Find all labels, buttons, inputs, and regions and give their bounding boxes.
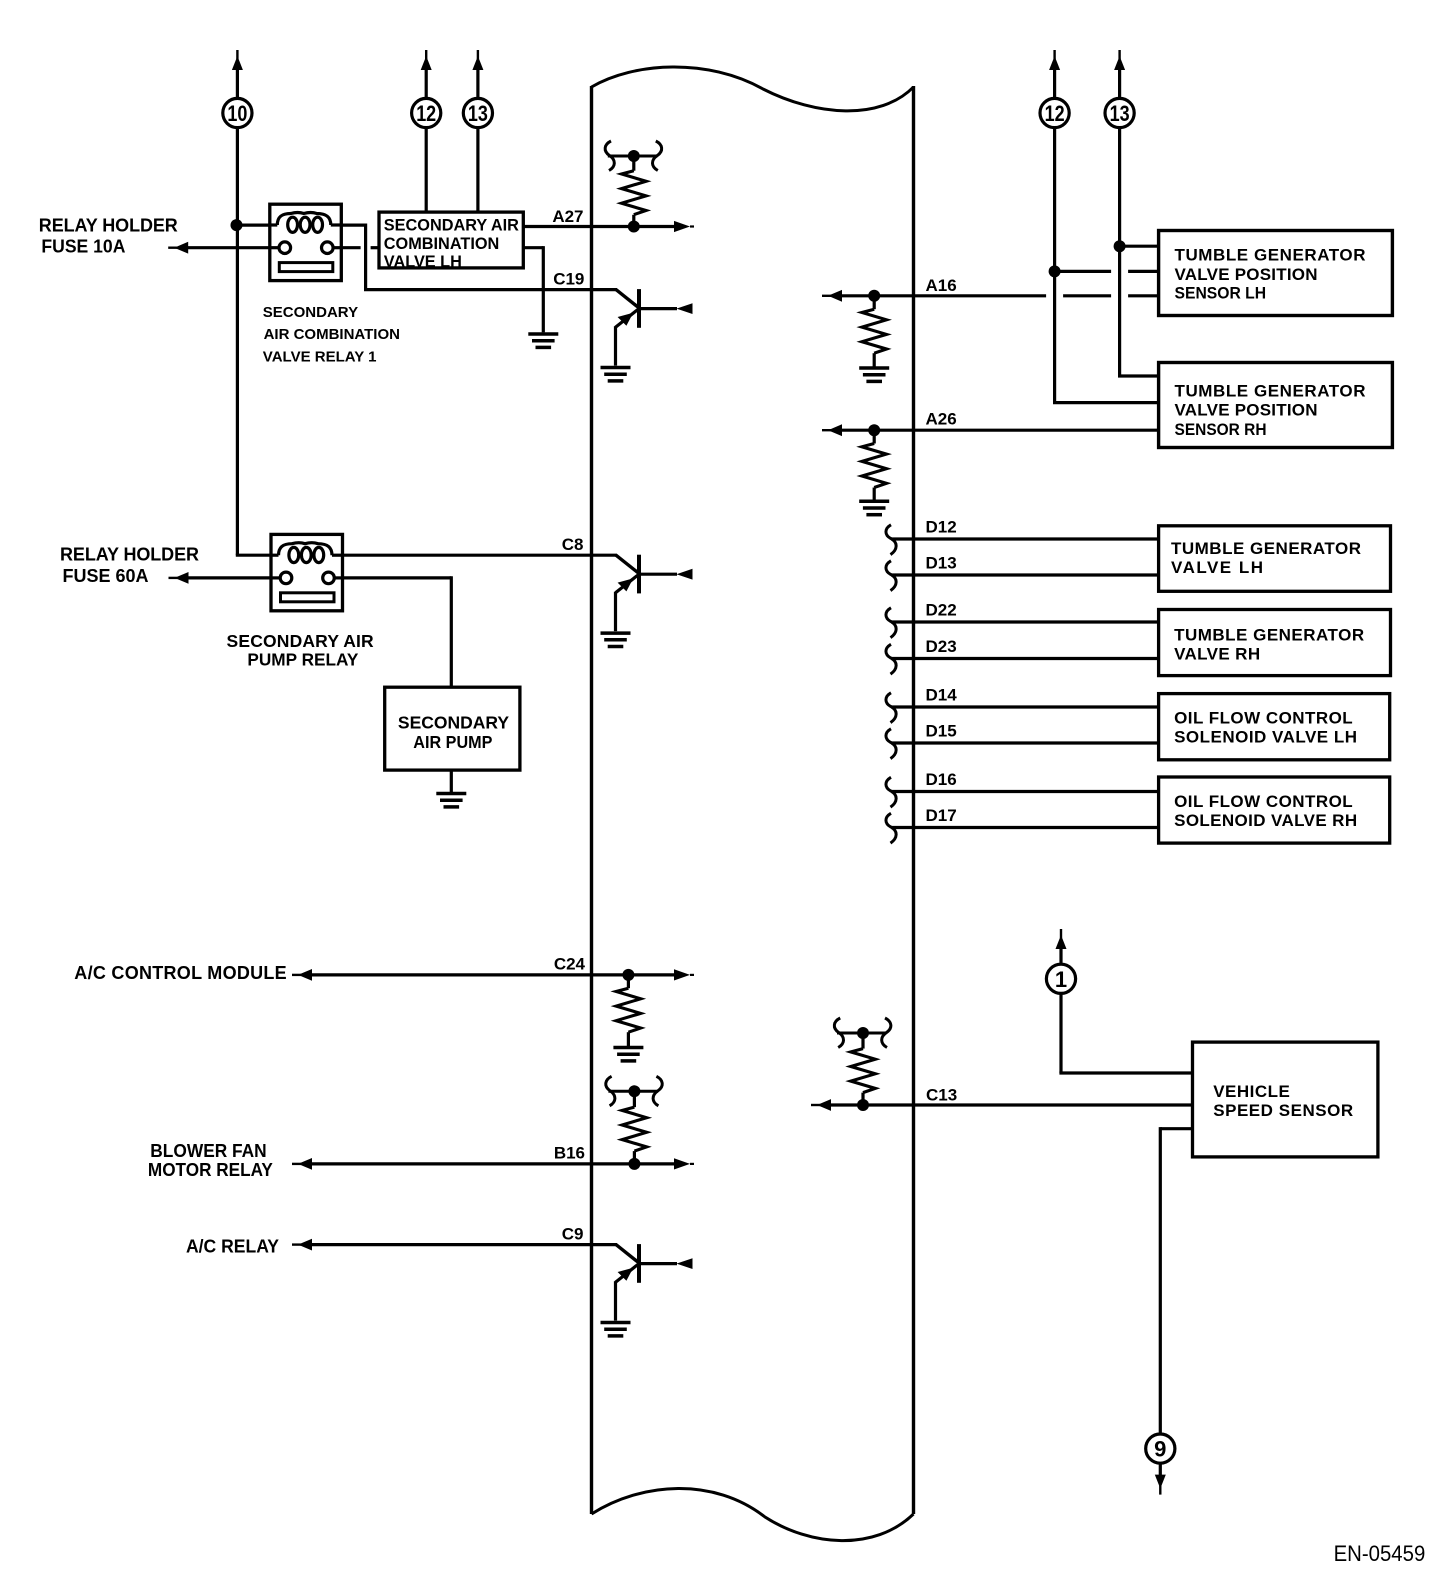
wire: connector 13 branch to sensor LH <box>1120 245 1159 248</box>
node: sensor LH supply from 13 <box>1114 240 1126 252</box>
wire: valve LH ground lead <box>523 246 543 332</box>
label D15 <box>926 722 957 741</box>
label C24 <box>554 955 586 974</box>
box: vehicle speed sensor <box>1193 1042 1378 1157</box>
label EN-05459 <box>1334 1541 1426 1566</box>
wire: supply rail from connector 10 down to relay 2 corner <box>236 69 271 556</box>
transistor: C8 driver <box>616 555 693 632</box>
shielded-wire curl symbol at C13 <box>834 1018 891 1048</box>
svg-text:SECONDARY: SECONDARY <box>398 712 509 732</box>
ground: A26 resistor <box>859 501 889 514</box>
wire C9: A/C relay line <box>292 1239 617 1251</box>
resistor: C13 pull <box>851 1035 876 1102</box>
svg-text:AIR COMBINATION: AIR COMBINATION <box>264 326 400 343</box>
svg-text:B16: B16 <box>554 1144 585 1163</box>
wire: connector 12 branch to sensor LH (hop over 13) <box>1055 270 1159 273</box>
connector circle 13 (left) <box>463 98 492 127</box>
wire C13: vehicle speed sensor signal <box>811 1099 1193 1111</box>
wire: connector 12 down to sensor RH <box>1053 128 1159 403</box>
node: A16 junction <box>868 290 880 302</box>
label D23 <box>926 637 957 656</box>
arrow up to connector 13 lead <box>472 50 483 98</box>
svg-text:RELAY HOLDER: RELAY HOLDER <box>60 545 199 565</box>
wire D23 with continuation squiggle <box>886 644 1159 674</box>
svg-text:A16: A16 <box>926 276 957 295</box>
node: sensor LH supply from 12 <box>1049 265 1061 277</box>
label D22 <box>926 601 957 620</box>
svg-text:C9: C9 <box>562 1224 584 1243</box>
box: tumble generator valve position sensor LH <box>1159 231 1393 316</box>
svg-text:VALVE RELAY 1: VALVE RELAY 1 <box>263 349 377 366</box>
svg-text:12: 12 <box>416 101 436 126</box>
svg-text:RELAY HOLDER: RELAY HOLDER <box>39 215 178 235</box>
svg-text:SPEED SENSOR: SPEED SENSOR <box>1213 1101 1353 1120</box>
wire A26: tumble generator valve position sensor RH <box>822 424 1159 436</box>
wire: relay 2 contact to secondary air pump <box>343 576 452 687</box>
svg-text:A26: A26 <box>926 410 957 429</box>
svg-text:D22: D22 <box>926 601 957 620</box>
wire D13 with continuation squiggle <box>886 561 1159 591</box>
svg-text:13: 13 <box>1110 101 1130 126</box>
arrow up to connector 12 lead <box>421 50 432 98</box>
node: A26 junction <box>868 424 880 436</box>
connector circle 1 <box>1046 964 1075 993</box>
label TUMBLE GENERATOR VALVE POSITION SENSOR RH <box>1175 381 1366 438</box>
ECM band right edge <box>912 86 915 1514</box>
ground: A16 resistor <box>859 368 889 381</box>
box: oil flow control solenoid valve RH <box>1159 777 1390 843</box>
ground: secondary air pump <box>436 794 466 807</box>
transistor: C9 driver <box>616 1244 693 1321</box>
node: C13 junction <box>857 1099 869 1111</box>
svg-text:1: 1 <box>1055 967 1067 992</box>
svg-text:MOTOR RELAY: MOTOR RELAY <box>148 1160 273 1180</box>
wire: valve LH to connector 12 <box>425 128 428 212</box>
node: A27 pull-up junction (top) <box>628 150 640 162</box>
label C8 <box>562 535 584 554</box>
label D17 <box>926 806 957 825</box>
label A16 <box>926 276 957 295</box>
connector circle 12 (right) <box>1040 98 1069 127</box>
wire: connector 1 to vehicle speed sensor <box>1059 993 1192 1073</box>
box: tumble generator valve RH <box>1159 610 1391 676</box>
arrow up to power supply (connector 10 lead) <box>232 50 243 70</box>
wire: valve LH to connector 13 <box>476 128 479 212</box>
svg-text:VALVE LH: VALVE LH <box>384 253 462 271</box>
svg-text:OIL FLOW CONTROL: OIL FLOW CONTROL <box>1174 709 1353 728</box>
ECM band left edge <box>590 86 593 1514</box>
svg-text:D14: D14 <box>926 686 958 705</box>
svg-text:TUMBLE GENERATOR: TUMBLE GENERATOR <box>1175 381 1366 400</box>
resistor: A27 pull-up <box>622 158 647 224</box>
label SECONDARY AIR PUMP RELAY <box>227 631 375 670</box>
resistor: A16 pull-down <box>862 298 887 367</box>
wire D14 with continuation squiggle <box>886 693 1159 723</box>
svg-text:VALVE POSITION: VALVE POSITION <box>1175 401 1318 420</box>
svg-text:A/C CONTROL MODULE: A/C CONTROL MODULE <box>74 963 286 983</box>
label VEHICLE SPEED SENSOR <box>1213 1082 1353 1120</box>
label OIL FLOW CONTROL SOLENOID VALVE RH <box>1174 792 1357 830</box>
ECM band torn-paper bottom edge <box>592 1488 914 1540</box>
label SECONDARY AIR PUMP <box>398 712 509 752</box>
resistor: B16 pull-up <box>622 1093 647 1161</box>
svg-text:SECONDARY: SECONDARY <box>263 304 358 321</box>
svg-text:COMBINATION: COMBINATION <box>384 235 499 253</box>
label C19 <box>553 269 584 288</box>
ground: valve LH <box>528 334 558 347</box>
wire D15 with continuation squiggle <box>886 729 1159 759</box>
wire: relay 1 contact to relay holder fuse 10A (arrow left) <box>168 242 270 254</box>
arrow up to connector 13 lead (right) <box>1114 50 1125 98</box>
connector circle 13 (right) <box>1105 98 1134 127</box>
svg-text:BLOWER FAN: BLOWER FAN <box>150 1141 266 1161</box>
label D14 <box>926 686 958 705</box>
wire C19: relay 1 coil to ECM transistor base <box>341 224 617 290</box>
svg-text:EN-05459: EN-05459 <box>1334 1541 1426 1566</box>
svg-text:D15: D15 <box>926 722 957 741</box>
node: B16 junction <box>628 1158 640 1170</box>
svg-text:VALVE LH: VALVE LH <box>1171 558 1263 577</box>
label A27 <box>552 207 583 226</box>
ground: C24 resistor <box>613 1048 643 1061</box>
box: secondary air pump <box>385 687 520 770</box>
node: C13 pull junction (top) <box>857 1027 869 1039</box>
ground: C19 transistor emitter <box>601 368 631 381</box>
svg-text:SECONDARY AIR: SECONDARY AIR <box>227 631 375 651</box>
ECM band torn-paper top edge <box>592 67 914 111</box>
resistor: C24 pull-down <box>616 977 641 1046</box>
svg-text:PUMP RELAY: PUMP RELAY <box>247 650 358 670</box>
connector circle 10 <box>223 98 252 127</box>
svg-text:9: 9 <box>1154 1437 1166 1462</box>
svg-text:D17: D17 <box>926 806 957 825</box>
svg-text:10: 10 <box>227 101 247 126</box>
transistor: C19 driver <box>616 289 693 366</box>
svg-text:TUMBLE GENERATOR: TUMBLE GENERATOR <box>1174 625 1364 644</box>
svg-text:D12: D12 <box>926 518 957 537</box>
shielded-wire curl symbol at A27 pull-up <box>605 141 662 171</box>
svg-text:SECONDARY AIR: SECONDARY AIR <box>384 217 519 235</box>
svg-text:SENSOR LH: SENSOR LH <box>1175 284 1267 303</box>
wire: relay 2 contact to relay holder fuse 60A (arrow left) <box>169 572 272 584</box>
svg-text:FUSE 10A: FUSE 10A <box>41 237 125 257</box>
svg-text:SOLENOID VALVE LH: SOLENOID VALVE LH <box>1174 728 1357 747</box>
wire D16 with continuation squiggle <box>886 777 1159 807</box>
label SECONDARY AIR COMBINATION VALVE RELAY 1 <box>263 304 400 366</box>
svg-text:AIR PUMP: AIR PUMP <box>413 732 492 752</box>
wire: connector 13 down to sensor RH <box>1118 128 1159 376</box>
resistor: A26 pull-down <box>862 432 887 500</box>
svg-text:VALVE RH: VALVE RH <box>1174 644 1260 663</box>
svg-text:FUSE 60A: FUSE 60A <box>63 566 149 586</box>
svg-text:C8: C8 <box>562 535 584 554</box>
label RELAY HOLDER FUSE 60A <box>60 545 199 587</box>
box: tumble generator valve LH <box>1159 526 1391 592</box>
wire D17 with continuation squiggle <box>886 813 1159 843</box>
arrow up to connector 1 lead <box>1056 929 1067 964</box>
label TUMBLE GENERATOR VALVE RH <box>1174 625 1364 663</box>
svg-text:TUMBLE GENERATOR: TUMBLE GENERATOR <box>1171 539 1361 558</box>
label D13 <box>926 554 957 573</box>
svg-text:13: 13 <box>468 101 488 126</box>
svg-text:A/C RELAY: A/C RELAY <box>186 1236 279 1256</box>
wire: vehicle speed sensor to connector 9 <box>1160 1127 1192 1434</box>
wire D12 with continuation squiggle <box>886 525 1159 555</box>
arrow down from connector 9 <box>1155 1475 1166 1495</box>
relay: secondary air pump relay <box>271 534 343 610</box>
label TUMBLE GENERATOR VALVE POSITION SENSOR LH <box>1175 245 1366 302</box>
svg-text:A27: A27 <box>552 207 583 226</box>
wire: relay 1 contact to secondary air combination valve LH (hop over C19 wire) <box>341 246 379 249</box>
label BLOWER FAN MOTOR RELAY <box>148 1141 273 1180</box>
shielded-wire curl symbol at B16 pull-up <box>606 1076 663 1106</box>
svg-text:D16: D16 <box>926 770 957 789</box>
wire A16: tumble generator valve position sensor LH (hops over 12 and 13) <box>822 290 1159 302</box>
node: C24 junction <box>622 969 634 981</box>
svg-text:TUMBLE GENERATOR: TUMBLE GENERATOR <box>1175 245 1366 264</box>
box: secondary air combination valve LH <box>379 212 523 268</box>
svg-text:C13: C13 <box>926 1086 957 1105</box>
ground: C9 transistor emitter <box>601 1323 631 1336</box>
wire: air pump ground lead <box>450 770 453 792</box>
svg-text:OIL FLOW CONTROL: OIL FLOW CONTROL <box>1174 792 1353 811</box>
wire: junction to relay 1 coil <box>237 224 270 227</box>
label A/C CONTROL MODULE <box>74 963 286 983</box>
box: tumble generator valve position sensor RH <box>1159 363 1393 448</box>
svg-text:C24: C24 <box>554 955 586 974</box>
wire C24: A/C control module line <box>292 969 694 981</box>
label D12 <box>926 518 957 537</box>
label SECONDARY AIR COMBINATION VALVE LH <box>384 217 519 271</box>
svg-text:D13: D13 <box>926 554 957 573</box>
svg-text:VALVE POSITION: VALVE POSITION <box>1175 265 1318 284</box>
svg-text:SOLENOID VALVE RH: SOLENOID VALVE RH <box>1174 811 1357 830</box>
label A26 <box>926 410 957 429</box>
label TUMBLE GENERATOR VALVE LH <box>1171 539 1361 577</box>
wire D22 with continuation squiggle <box>886 608 1159 638</box>
wire below connector 9 <box>1159 1463 1162 1477</box>
node: B16 pull-up junction (top) <box>628 1085 640 1097</box>
label RELAY HOLDER FUSE 10A <box>39 215 178 256</box>
svg-text:D23: D23 <box>926 637 957 656</box>
relay: secondary air combination valve relay 1 <box>270 204 342 280</box>
connector circle 9 <box>1146 1434 1175 1463</box>
svg-text:C19: C19 <box>553 269 584 288</box>
box: oil flow control solenoid valve LH <box>1159 694 1390 760</box>
wire B16: blower fan motor relay line <box>292 1158 694 1170</box>
label B16 <box>554 1144 585 1163</box>
label C13 <box>926 1086 957 1105</box>
connector circle 12 (left) <box>412 98 441 127</box>
label D16 <box>926 770 957 789</box>
node: relay 1 coil supply junction <box>231 219 243 231</box>
label C9 <box>562 1224 584 1243</box>
label A/C RELAY <box>186 1236 279 1256</box>
label OIL FLOW CONTROL SOLENOID VALVE LH <box>1174 709 1357 747</box>
svg-text:SENSOR RH: SENSOR RH <box>1175 420 1267 439</box>
arrow up to connector 12 lead (right) <box>1049 50 1060 98</box>
node: A27 junction <box>628 221 640 233</box>
svg-text:12: 12 <box>1045 101 1065 126</box>
wire A27: valve LH into ECM with arrow <box>523 221 694 232</box>
wire C8: relay 2 coil to ECM transistor base <box>343 554 618 557</box>
ground: C8 transistor emitter <box>601 633 631 646</box>
svg-text:VEHICLE: VEHICLE <box>1213 1082 1290 1101</box>
